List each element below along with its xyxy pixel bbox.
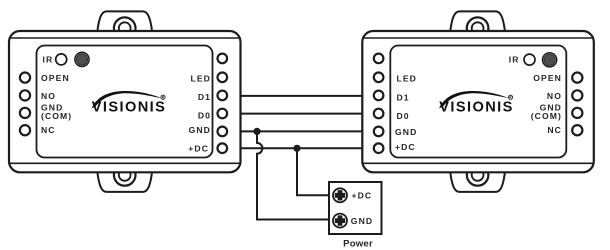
terminal NO (right module) <box>572 90 582 100</box>
right module inner panel <box>390 46 566 158</box>
right module top mounting tab <box>450 11 505 31</box>
wire GND drop to power supply with hop over +DC wire <box>257 131 332 219</box>
terminal D1 (left module right) <box>218 91 228 101</box>
svg-text:IR: IR <box>509 54 520 64</box>
svg-text:NC: NC <box>41 125 56 135</box>
svg-text:LED: LED <box>397 74 418 84</box>
left module top tab hole arcs <box>114 17 136 39</box>
terminal +DC (right module left) <box>374 143 384 153</box>
svg-text:IR: IR <box>43 54 54 64</box>
terminal GND (left module right) <box>218 127 228 137</box>
terminal unlabeled (left module right) <box>218 54 228 64</box>
wire +DC (left +DC to right +DC) <box>241 147 363 149</box>
svg-text:+DC: +DC <box>395 142 416 152</box>
svg-text:VISIONIS: VISIONIS <box>92 99 166 115</box>
svg-text:(COM): (COM) <box>531 111 562 121</box>
right module IR sensor circle <box>524 54 535 65</box>
terminal GND (right module left) <box>374 127 384 137</box>
svg-text:OPEN: OPEN <box>533 73 562 83</box>
svg-text:D0: D0 <box>397 111 410 121</box>
terminal NC (left) <box>20 125 30 135</box>
svg-text:OPEN: OPEN <box>41 73 70 83</box>
left module left terminal circles: OPEN NO GND NC <box>20 73 30 136</box>
wire D0 (left D0 to right D0) <box>241 113 363 115</box>
left module bottom tab hole arcs <box>114 164 136 186</box>
wire +DC drop to power supply <box>297 148 332 195</box>
right module left terminal circles: -,LED,D1,D0,GND,+DC <box>374 54 384 153</box>
left module IR sensor circle <box>56 54 67 65</box>
svg-text:NO: NO <box>547 91 562 101</box>
svg-text:NO: NO <box>41 91 56 101</box>
terminal LED (left module right) <box>218 73 228 83</box>
power +DC screw terminal <box>333 188 347 202</box>
svg-text:(COM): (COM) <box>41 111 72 121</box>
terminal LED (right module left) <box>374 73 384 83</box>
svg-text:NC: NC <box>547 125 562 135</box>
terminal D0 (left module right) <box>218 109 228 119</box>
right module bottom mounting tab <box>450 172 505 192</box>
terminal unlabeled (right module left) <box>374 54 384 64</box>
right module right terminal circles: OPEN NO GND NC <box>572 73 582 136</box>
svg-text:GND: GND <box>189 125 211 135</box>
wire GND (left GND to right GND) <box>241 130 363 132</box>
right module bottom ridge line <box>363 162 593 164</box>
left module bottom ridge line <box>10 162 240 164</box>
right module VISIONIS logo <box>439 91 514 115</box>
svg-text:D1: D1 <box>397 92 410 102</box>
right module IR LED (filled) <box>543 53 557 67</box>
right module bottom tab hole arcs <box>467 164 489 186</box>
left module right terminal circles: -,LED,D1,D0,GND,+DC <box>218 54 228 153</box>
junction dot +DC <box>293 145 300 152</box>
right module top tab hole arcs <box>467 17 489 39</box>
terminal OPEN (right module) <box>572 73 582 83</box>
power GND screw terminal <box>333 214 347 228</box>
terminal D1 (right module left) <box>374 91 384 101</box>
right module top ridge line <box>363 37 593 39</box>
left module top ridge line <box>10 37 240 39</box>
svg-text:+DC: +DC <box>352 190 373 200</box>
terminal D0 (right module left) <box>374 109 384 119</box>
svg-text:Power: Power <box>343 238 373 249</box>
left module outer body <box>9 31 241 172</box>
svg-text:GND: GND <box>395 127 417 137</box>
svg-text:GND: GND <box>351 216 373 226</box>
wire D1 (left D1 to right D1) <box>241 95 363 97</box>
left module top mounting tab <box>97 11 152 31</box>
terminal OPEN (left) <box>20 73 30 83</box>
left module VISIONIS logo <box>92 91 167 115</box>
svg-text:LED: LED <box>191 74 212 84</box>
left module inner panel <box>37 46 213 158</box>
svg-text:D1: D1 <box>198 92 211 102</box>
left module IR LED (filled) <box>75 52 89 66</box>
power box outline <box>329 182 382 234</box>
svg-text:VISIONIS: VISIONIS <box>439 99 513 115</box>
terminal +DC (left module right) <box>218 143 228 153</box>
right module outer body <box>362 31 594 172</box>
left module bottom mounting tab <box>97 172 152 192</box>
terminal NC (right module) <box>572 125 582 135</box>
svg-text:D0: D0 <box>198 110 211 120</box>
terminal GND(COM) (right module) <box>572 108 582 118</box>
svg-text:+DC: +DC <box>188 144 209 154</box>
junction dot GND <box>253 128 260 135</box>
terminal NO (left) <box>20 90 30 100</box>
terminal GND(COM) (left) <box>20 108 30 118</box>
